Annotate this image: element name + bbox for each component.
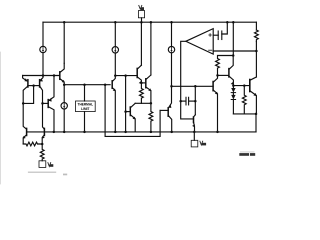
node rail x171: [170, 21, 173, 24]
transistor Q9 npn: [194, 115, 196, 117]
diode D2: [232, 93, 234, 95]
transistor Q3 npn: [59, 72, 61, 80]
wire x233: [232, 22, 234, 55]
wire cap to rail: [222, 22, 228, 34]
transistor Qo output npn: [249, 80, 251, 92]
transistor QL npn: [26, 128, 28, 135]
node ADJ top: [41, 143, 44, 146]
resistor R6 current limit: [254, 30, 258, 42]
current source I3: [168, 46, 174, 52]
current source I2: [112, 47, 118, 53]
wire output down to vout bus: [255, 114, 257, 132]
resistor R5: [242, 86, 246, 114]
resistor R2: [139, 83, 150, 103]
doc number: [240, 151, 255, 153]
diode D1: [232, 86, 234, 88]
transistor Q7 npn: [124, 110, 127, 113]
terminal VOUT square: [193, 132, 195, 140]
transistor Qb npn: [218, 74, 229, 76]
wire x64 to current source I4: [63, 85, 65, 103]
wire emitter bus y113.9: [233, 113, 256, 115]
wire output base y85.6: [233, 85, 249, 87]
node A: [22, 102, 25, 105]
node rail x227: [226, 21, 229, 24]
wire x151 collector Q6: [150, 22, 152, 75]
wire drop x115: [114, 22, 116, 46]
transistor Q2 pnp mirror right: [40, 76, 43, 81]
label ADJ: [48, 163, 51, 167]
wire x195.3: [194, 86, 196, 101]
wire y86.3: [172, 85, 214, 87]
transistor QR npn: [43, 128, 45, 135]
node rail x233: [232, 21, 235, 24]
wire x125: [125, 76, 127, 132]
footer rule: [28, 171, 56, 173]
mirror rail wire: [23, 75, 60, 77]
wire inverting input: [213, 50, 256, 52]
resistor R4: [216, 56, 234, 76]
label VOUT: [200, 141, 203, 145]
wire y75.6: [115, 75, 137, 77]
footer mark: [63, 174, 67, 176]
wire base bus y84.7: [64, 84, 110, 86]
wire jumper x105: [105, 85, 160, 137]
transistor Q4 pnp: [43, 102, 49, 104]
terminal VIN square: [138, 11, 144, 18]
node rail x64: [63, 21, 66, 24]
label VIN: [139, 5, 142, 9]
wire op-amp output: [181, 41, 186, 101]
svg-text:LIMIT: LIMIT: [81, 107, 89, 111]
node Q5e Q6b: [140, 82, 143, 85]
transistor Q5 npn: [136, 68, 138, 77]
transistor Q8 pnp: [169, 86, 172, 107]
transistor Qa npn: [212, 82, 214, 91]
wire x141 collector Q5: [140, 22, 142, 65]
node rail x151: [150, 21, 153, 24]
wire rail corner x256: [255, 22, 257, 30]
node B: [41, 102, 44, 105]
op-amp U1: [186, 29, 213, 54]
node R2/R3: [150, 102, 153, 105]
resistor R8 vertical: [40, 144, 44, 161]
wire drop x171: [171, 22, 173, 46]
current source I1: [40, 46, 46, 52]
capacitor C2: [179, 100, 182, 103]
wire top rail V+: [43, 21, 256, 23]
wire Q7 collector line: [135, 102, 141, 104]
thermal limit box: [84, 85, 86, 101]
resistor R7 horizontal: [23, 142, 42, 146]
wire mirror bases: [28, 85, 40, 87]
wire vout bus y131.9: [27, 131, 256, 133]
current source I4: [61, 103, 67, 109]
node rail x141: [140, 21, 143, 24]
transistor Q6 npn: [141, 82, 145, 84]
wire drop x43: [42, 22, 44, 46]
capacitor C1: [217, 31, 219, 40]
transistor Q10 npn: [111, 81, 113, 89]
resistor R3: [149, 103, 153, 132]
wire drop x64: [63, 22, 65, 63]
node -input x256: [255, 50, 258, 53]
transistor Q1 pnp mirror left: [23, 76, 27, 81]
terminal ADJ square: [39, 161, 46, 168]
page edge line: [0, 52, 1, 184]
